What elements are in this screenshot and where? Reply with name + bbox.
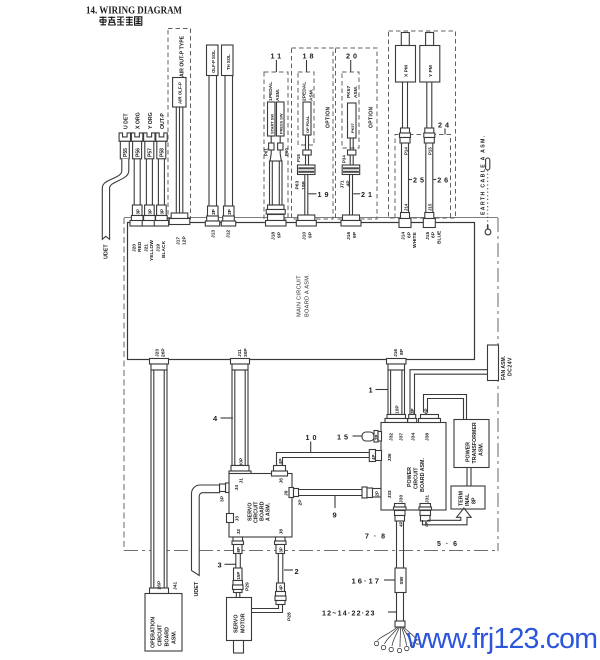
svg-text:OPTION: OPTION [326,106,332,128]
svg-text:3P: 3P [136,209,141,215]
svg-text:SW: SW [399,576,405,584]
node J3 [227,514,241,523]
big dashed enclosure box [124,218,498,552]
svg-text:J11: J11 [237,349,243,357]
wire UDET2 ribbon from J4 [192,485,220,597]
wire P58 to J19 [154,159,168,226]
dashed box 24 connectors [395,135,451,219]
svg-text:8P: 8P [236,547,241,552]
cable J23 to operation board [150,359,179,594]
wire pedal cable to J18 [266,150,287,226]
label 15 [337,433,362,442]
svg-text:6P: 6P [431,231,437,238]
motor X PM [396,33,416,83]
svg-text:UDET: UDET [103,244,109,259]
wire J2 to P29 (3) [233,554,251,598]
svg-text:J71: J71 [339,180,345,188]
svg-text:TRANSFORMER: TRANSFORMER [472,422,478,463]
svg-text:J15: J15 [425,232,431,240]
svg-text:FAN ASM.: FAN ASM. [501,355,507,380]
svg-text:BLACK: BLACK [161,240,167,258]
wire X PM to P14 [400,82,411,143]
cable J30 to SW [397,521,404,568]
label 10 [306,433,320,453]
label 12~14 22 23 [322,610,397,618]
svg-text:2P: 2P [375,491,380,496]
svg-text:4P: 4P [398,522,403,527]
svg-text:TERM: TERM [459,490,465,506]
svg-text:10P: 10P [301,181,307,190]
svg-text:16·17: 16·17 [352,577,381,586]
terminal 8P box [451,486,485,509]
svg-text:J16: J16 [346,232,352,240]
svg-text:P55: P55 [123,148,129,157]
svg-text:CIRCUIT: CIRCUIT [414,467,420,489]
svg-text:14. WIRING DIAGRAM: 14. WIRING DIAGRAM [86,5,182,17]
label 19 [309,190,332,199]
svg-text:J14: J14 [403,203,408,211]
svg-text:ASM.: ASM. [172,630,178,644]
svg-text:12P: 12P [182,236,188,245]
svg-text:9: 9 [333,511,337,520]
svg-text:WHITE: WHITE [412,232,418,248]
svg-text:3P: 3P [410,408,415,414]
wire fan-out to lugs [374,627,420,653]
label 20 [346,52,360,73]
svg-text:A ASM.: A ASM. [266,502,272,521]
dashed box pulse motors [389,31,456,218]
svg-text:J8: J8 [279,529,285,535]
svg-text:AIR OLF-P: AIR OLF-P [178,82,183,104]
connector P57 Y ORG [144,112,155,158]
svg-text:P28: P28 [287,612,293,621]
svg-text:OPERATION: OPERATION [151,617,157,648]
label 26 [433,176,451,185]
svg-text:2P: 2P [374,435,379,440]
svg-text:J23: J23 [154,349,160,357]
svg-text:OP PDAL: OP PDAL [305,115,310,133]
svg-text:15P: 15P [236,572,241,580]
wire TH SOL to J12 [221,76,235,227]
svg-text:J36: J36 [387,453,393,461]
dashed box PK57 ASM [342,72,359,148]
connector J30 4P [394,504,407,528]
svg-text:P15: P15 [428,147,433,155]
connector J31 4P [419,504,432,528]
cable J11 to servo board (4) [229,359,251,477]
dashed box OPTION (pk57) [336,48,378,219]
dashed box 1PEDAL ASM [264,72,288,219]
svg-text:P61: P61 [264,148,269,156]
label 2 [284,567,299,576]
motor Y PM [420,33,440,83]
solenoid OLF-P SOL [207,45,219,76]
svg-text:2: 2 [295,567,299,576]
svg-text:4P: 4P [346,180,352,187]
main circuit board A asm [128,223,475,360]
svg-text:TH SOL: TH SOL [226,54,231,70]
solenoid TH SOL [222,45,234,76]
svg-text:19: 19 [318,190,332,199]
svg-text:4P: 4P [279,585,284,590]
wire OLF-P SOL to J13 [205,76,219,227]
node J11 30P label [237,348,249,357]
svg-text:MAIN CIRCUIT: MAIN CIRCUIT [297,275,303,317]
dashed box OPTION (2pedal) [292,48,334,219]
wire P57 to J21 [142,159,156,226]
wire P63 to J10 [296,175,316,227]
svg-text:J15: J15 [428,203,433,211]
servo circuit board A asm [229,474,292,538]
svg-text:U DET: U DET [123,113,129,129]
fan asm DC24V [488,345,514,381]
svg-text:3P: 3P [160,209,165,215]
label 4 [213,414,233,423]
svg-text:CIRCUIT: CIRCUIT [158,624,164,646]
wire J31 to terminal arrow [423,508,472,525]
switch SW box [395,568,406,593]
node J15 6P BLUE label [425,230,442,244]
connector J2 [232,529,244,554]
svg-text:P58: P58 [160,148,166,157]
svg-text:www.frj123.com: www.frj123.com [406,623,598,655]
svg-text:26P: 26P [157,580,163,589]
svg-text:X PM: X PM [404,65,410,77]
svg-text:X ORG: X ORG [136,112,142,129]
svg-text:POWER: POWER [407,467,413,487]
svg-text:2P: 2P [298,499,304,506]
svg-text:ASM.: ASM. [353,85,359,98]
svg-text:UDET: UDET [194,581,200,596]
svg-text:P29: P29 [245,582,251,591]
label 3 [218,561,236,570]
connector P14 / wire to J14 [399,143,411,228]
svg-text:YELLOW: YELLOW [149,240,155,261]
air olf-p valve box [173,78,186,108]
connector P56 X ORG [131,112,142,159]
svg-text:3P: 3P [148,209,153,215]
svg-text:1: 1 [369,386,373,395]
pk57 asm label [346,85,359,98]
label 1 [369,386,389,395]
node J21 label [143,240,155,261]
svg-text:6P: 6P [424,408,429,414]
svg-text:MOTOR: MOTOR [241,613,247,633]
svg-text:26: 26 [437,176,451,185]
connector P63 10P block [295,155,315,190]
svg-text:7 · 8: 7 · 8 [365,534,387,541]
node J18 9P label [270,231,282,240]
svg-text:J14: J14 [401,232,407,240]
svg-text:BLUE: BLUE [436,230,442,244]
switch PRESS SW [277,102,285,136]
connector P60 [278,136,289,156]
svg-text:J13: J13 [210,230,216,238]
connector J8 [275,529,287,554]
svg-text:J16: J16 [393,349,399,357]
svg-text:PK57: PK57 [350,123,355,133]
svg-text:20: 20 [346,52,360,61]
svg-text:BOARD: BOARD [165,627,171,647]
svg-text:8P: 8P [472,497,478,504]
svg-text:BOARD ASM.: BOARD ASM. [420,458,426,492]
svg-text:OUT-P: OUT-P [160,113,166,129]
svg-text:J3: J3 [235,516,241,522]
title [86,5,182,17]
svg-text:J34: J34 [411,433,417,441]
svg-text:P57: P57 [148,148,154,157]
svg-text:ASM.: ASM. [275,88,281,101]
pedal OP PDAL box [303,102,311,135]
2pedal asm label [301,82,314,101]
svg-text:10: 10 [306,433,320,442]
svg-text:J2: J2 [236,529,242,535]
dashed box 2PEDAL ASM [298,72,314,145]
connector P34 [342,138,356,163]
svg-text:J4: J4 [234,485,240,491]
node J9 / wire 9 to J33 [284,488,363,506]
dashed box AIR OUT-P TYPE [168,29,191,220]
svg-text:6P: 6P [406,231,412,238]
svg-text:10P: 10P [394,405,400,414]
node J23 26P label [154,348,166,357]
label 21 [353,190,375,199]
svg-text:5 · 6: 5 · 6 [437,541,459,548]
svg-text:2P: 2P [227,209,232,215]
wire UDET (curved ribbon from P55) [102,159,129,259]
connector J32 2P with plug 15 [362,431,382,443]
label 9 [333,496,337,520]
svg-text:2P: 2P [211,209,216,215]
connector J38 6P + wire to transformer [419,395,467,442]
label 18 [303,52,317,73]
connector J4 3P [219,483,229,502]
power circuit board asm [381,423,446,511]
svg-text:OLF-P SOL: OLF-P SOL [211,50,216,73]
connector J71 4P block [339,155,359,189]
svg-text:J6: J6 [279,478,285,484]
svg-text:J20: J20 [131,244,137,252]
svg-text:4P: 4P [371,455,376,460]
svg-text:9P: 9P [308,231,314,238]
wire AIR to J17 [169,107,190,225]
japanese subtitle (stroke glyphs) [100,17,142,26]
cable J16 to J37 (1) [385,359,408,423]
wire fan cable (J34 to fan) [410,370,488,415]
svg-text:Y ORG: Y ORG [148,112,154,129]
svg-text:J18: J18 [270,232,276,240]
svg-text:BOARD A ASM.: BOARD A ASM. [305,274,311,317]
svg-text:21: 21 [361,190,375,199]
svg-text:J1: J1 [239,478,245,484]
node J14 6P WHITE label [401,231,418,248]
svg-text:P34: P34 [342,155,347,163]
servo motor [227,598,252,654]
svg-text:J37: J37 [399,433,405,441]
svg-text:AIR OUT-P TYPE: AIR OUT-P TYPE [179,35,185,77]
svg-text:30P: 30P [243,348,249,357]
svg-text:PRESS SW: PRESS SW [278,113,283,134]
connector J33 2P [362,487,393,499]
svg-text:4: 4 [213,414,218,423]
svg-text:OPTION: OPTION [369,106,375,128]
svg-text:J33: J33 [387,490,393,498]
svg-text:18: 18 [303,52,317,61]
svg-text:PK57: PK57 [346,85,352,98]
svg-text:J21: J21 [143,244,149,252]
svg-text:Y PM: Y PM [428,65,434,77]
svg-text:24: 24 [438,121,452,130]
svg-text:J38: J38 [424,433,430,441]
node J16 9P label [346,231,358,240]
label 11 [271,52,285,73]
svg-text:RED: RED [137,241,143,252]
pedal PK57 box [348,103,357,138]
svg-text:1PEDAL: 1PEDAL [268,82,274,101]
connector P58 OUT-P [156,113,167,159]
earth cable A asm [481,135,491,235]
svg-text:J10: J10 [301,232,307,240]
wire P56 to J20 [130,159,144,226]
node J20 label [131,241,143,252]
wire Y PM to P15 [424,82,435,143]
label 16 17 [352,577,396,586]
svg-text:8P: 8P [399,348,405,355]
switch START SW [268,102,276,136]
svg-text:J41: J41 [173,582,179,590]
svg-text:J12: J12 [225,230,231,238]
node J16 8P label [393,348,405,357]
svg-text:ASM.: ASM. [308,88,314,101]
svg-text:9P: 9P [277,231,283,238]
svg-text:15: 15 [337,433,351,442]
svg-text:25: 25 [413,176,427,185]
svg-text:ASM.: ASM. [478,442,484,456]
svg-text:P60: P60 [284,148,289,156]
wire transformer to terminal [467,468,471,487]
svg-text:EARTH CABLE A ASM.: EARTH CABLE A ASM. [481,135,487,216]
svg-text:J17: J17 [175,237,181,245]
node J10 9P label [301,231,313,240]
svg-text:P63: P63 [295,181,301,190]
svg-text:3: 3 [218,561,222,570]
label 25 [409,176,427,185]
svg-text:DC24V: DC24V [508,357,514,376]
svg-text:P14: P14 [403,147,408,155]
connector P55 U DET [119,113,130,159]
svg-text:J30: J30 [399,495,405,503]
wire 10 (J6 to J36) [277,453,370,466]
svg-text:START SW: START SW [269,114,274,134]
svg-text:2PEDAL: 2PEDAL [301,82,307,101]
svg-text:J32: J32 [389,433,395,441]
wire J71 to J16top [341,175,361,227]
svg-text:9P: 9P [352,231,358,238]
operation circuit board asm [145,594,182,652]
svg-text:P19: P19 [296,154,301,162]
svg-text:3P: 3P [219,495,225,502]
connector P19 [296,135,311,162]
svg-text:POWER: POWER [465,442,471,462]
svg-text:11: 11 [271,52,285,61]
svg-text:J19: J19 [155,244,161,252]
connector P61 [264,136,274,156]
node J17 12P label [175,236,187,245]
svg-text:26P: 26P [161,348,167,357]
svg-text:P56: P56 [135,148,141,157]
power transformer asm [454,420,489,468]
cable SW to lugs [395,593,405,628]
connector P15 / wire to J15 [423,143,435,228]
node J19 label [155,240,167,258]
svg-text:3P: 3P [279,547,284,552]
connector J36 4P [369,450,393,462]
svg-text:INAL: INAL [465,493,471,506]
label 24 [438,121,452,135]
wire J8 to P28 (2) [252,554,293,622]
svg-text:SERVO: SERVO [234,615,240,633]
1pedal asm label [268,82,281,101]
svg-text:J31: J31 [424,495,430,503]
connector J34 3P [408,408,417,441]
connector J6 4P [272,458,288,476]
svg-text:12~14·22·23: 12~14·22·23 [322,610,376,618]
